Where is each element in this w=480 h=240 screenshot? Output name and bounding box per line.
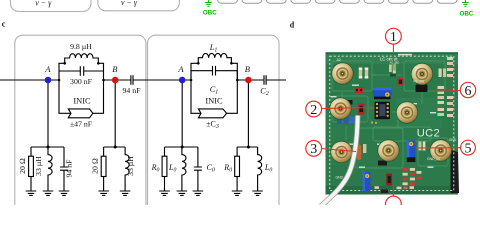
svg-text:INIC: INIC [205,97,223,106]
svg-text:d: d [290,21,295,30]
svg-text:v − γ: v − γ [35,0,52,7]
svg-text:L1: L1 [209,43,218,54]
svg-text:RE-343: RE-343 [414,80,425,84]
svg-text:A: A [177,64,184,74]
svg-text:1: 1 [390,30,397,45]
svg-text:94 nF: 94 nF [65,159,74,178]
svg-text:±C3: ±C3 [206,120,219,131]
svg-text:A: A [44,64,51,74]
svg-text:OBC: OBC [203,10,217,17]
svg-text:20 Ω: 20 Ω [91,158,100,174]
svg-text:R0: R0 [151,163,160,174]
svg-text:C0: C0 [206,163,214,174]
svg-text:±47 nF: ±47 nF [70,120,93,129]
svg-text:33 µH: 33 µH [126,156,135,176]
svg-text:GND_01: GND_01 [427,157,440,161]
svg-text:B: B [245,64,250,74]
svg-text:INIC: INIC [73,97,91,106]
svg-text:c: c [2,20,6,29]
svg-text:GND_A2: GND_A2 [336,175,350,179]
svg-text:6: 6 [465,84,472,99]
svg-text:3: 3 [310,142,317,157]
svg-text:B: B [112,64,117,74]
svg-text:L0: L0 [168,163,176,174]
svg-text:94 nF: 94 nF [123,86,142,95]
svg-text:5: 5 [465,141,472,156]
svg-text:33 µH: 33 µH [34,156,43,176]
svg-text:20 Ω: 20 Ω [18,158,27,174]
svg-text:L0: L0 [264,163,272,174]
svg-text:OBC: OBC [460,10,474,17]
svg-text:2: 2 [310,103,317,118]
svg-text:9.8 µH: 9.8 µH [70,42,92,51]
svg-text:v − γ: v − γ [121,0,138,7]
svg-text:C2: C2 [260,87,269,98]
svg-text:R0: R0 [223,163,232,174]
svg-text:C1: C1 [210,85,219,96]
svg-text:A2-382: A2-382 [390,61,399,65]
svg-text:300 nF: 300 nF [70,77,93,86]
svg-text:A2: A2 [337,58,341,62]
svg-text:UC2: UC2 [417,127,440,139]
svg-text:GND: GND [449,138,457,142]
